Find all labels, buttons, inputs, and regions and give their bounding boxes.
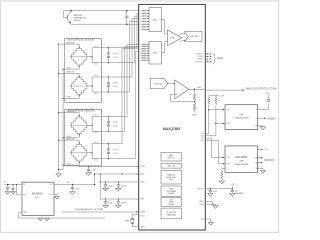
svg-text:0.1µF: 0.1µF bbox=[113, 122, 119, 124]
svg-text:MAXQ7665: MAXQ7665 bbox=[163, 127, 180, 131]
svg-text:LIN: LIN bbox=[240, 113, 244, 116]
svg-text:SC a: SC a bbox=[95, 46, 99, 48]
svg-text:MCU: MCU bbox=[169, 179, 174, 181]
svg-text:VBRIDGE: VBRIDGE bbox=[66, 42, 75, 44]
svg-text:TDO/DOUT: TDO/DOUT bbox=[195, 61, 204, 63]
svg-text:RESET: RESET bbox=[140, 212, 145, 214]
svg-text:+5V: +5V bbox=[220, 96, 224, 98]
svg-text:MUX: MUX bbox=[153, 20, 158, 22]
svg-text:LIN BUS: LIN BUS bbox=[267, 118, 276, 120]
svg-text:RX0: RX0 bbox=[201, 135, 204, 137]
svg-text:CAN BUS: CAN BUS bbox=[264, 159, 275, 162]
svg-text:FLASH: FLASH bbox=[168, 203, 175, 206]
svg-text:SENSOR: SENSOR bbox=[73, 20, 81, 22]
svg-text:FLASH: FLASH bbox=[168, 192, 175, 195]
svg-text:VDDIO: VDDIO bbox=[140, 166, 146, 168]
svg-text:0.01µF: 0.01µF bbox=[121, 203, 128, 205]
svg-text:(LIN 2.0): (LIN 2.0) bbox=[168, 158, 176, 160]
svg-text:TRANSCEIVER: TRANSCEIVER bbox=[234, 117, 249, 120]
svg-text:REGOUT: REGOUT bbox=[197, 188, 204, 190]
svg-text:OUT: OUT bbox=[49, 184, 52, 186]
svg-text:GND: GND bbox=[67, 163, 72, 165]
svg-text:0.1µF: 0.1µF bbox=[113, 57, 119, 59]
svg-text:SC b: SC b bbox=[95, 64, 99, 66]
svg-text:+5V: +5V bbox=[264, 149, 268, 151]
svg-text:12-BIT ADC: 12-BIT ADC bbox=[190, 35, 200, 38]
svg-text:TMS/CS: TMS/CS bbox=[197, 59, 204, 61]
svg-text:SC a: SC a bbox=[95, 75, 99, 77]
svg-text:GND: GND bbox=[67, 97, 72, 99]
svg-text:TCK/SCLK: TCK/SCLK bbox=[195, 54, 204, 56]
svg-text:SC a: SC a bbox=[95, 115, 99, 117]
svg-text:VBRIDGE: VBRIDGE bbox=[66, 111, 75, 113]
svg-text:8MHz: 8MHz bbox=[125, 221, 130, 223]
svg-text:ON: ON bbox=[23, 195, 25, 197]
svg-text:SC a: SC a bbox=[95, 142, 99, 144]
svg-text:0.1µF: 0.1µF bbox=[113, 82, 119, 84]
svg-text:0.1µF: 0.1µF bbox=[113, 53, 119, 55]
svg-text:+5V: +5V bbox=[230, 184, 234, 186]
svg-text:TRANSCEIVER: TRANSCEIVER bbox=[234, 163, 249, 166]
svg-text:+12V: +12V bbox=[3, 182, 6, 184]
svg-text:0.1µF: 0.1µF bbox=[113, 153, 119, 155]
svg-text:RX1: RX1 bbox=[201, 140, 204, 142]
svg-text:SC b: SC b bbox=[95, 132, 99, 134]
svg-text:0.01µF: 0.01µF bbox=[121, 186, 128, 188]
svg-text:CAN: CAN bbox=[239, 159, 244, 162]
svg-text:JTAG: JTAG bbox=[217, 56, 223, 60]
svg-text:0.1µF: 0.1µF bbox=[113, 86, 119, 88]
svg-text:12-BIT DAC: 12-BIT DAC bbox=[154, 82, 164, 85]
svg-text:0.1µF: 0.1µF bbox=[113, 125, 119, 127]
svg-text:IN: IN bbox=[23, 184, 25, 186]
svg-text:+12V: +12V bbox=[265, 93, 270, 95]
svg-text:VBRIDGE: VBRIDGE bbox=[66, 72, 75, 74]
svg-text:TDI/DIN: TDI/DIN bbox=[197, 56, 204, 58]
svg-text:0.1µF: 0.1µF bbox=[113, 149, 119, 151]
svg-text:SC b: SC b bbox=[95, 93, 99, 95]
svg-text:(CERAMIC): (CERAMIC) bbox=[235, 192, 244, 195]
svg-text:DATA RAM: DATA RAM bbox=[167, 213, 177, 216]
svg-text:EXTERNAL RESET IS OPTIONAL: EXTERNAL RESET IS OPTIONAL bbox=[75, 208, 104, 211]
svg-text:DUAL BRIDGE SENSOR: DUAL BRIDGE SENSOR bbox=[68, 39, 94, 42]
svg-text:CAN 2.0B: CAN 2.0B bbox=[167, 164, 176, 167]
svg-text:+5V: +5V bbox=[66, 182, 70, 184]
svg-text:SC b: SC b bbox=[95, 160, 99, 162]
svg-text:TX0: TX0 bbox=[201, 133, 204, 135]
svg-text:ANALOG OUTPUT (0 TO 5V): ANALOG OUTPUT (0 TO 5V) bbox=[246, 87, 277, 90]
svg-text:MUX: MUX bbox=[153, 53, 158, 55]
svg-text:TX1: TX1 bbox=[201, 138, 204, 140]
svg-text:VBRIDGE: VBRIDGE bbox=[66, 138, 75, 140]
svg-text:LDO: LDO bbox=[35, 197, 40, 199]
svg-text:MAX13050: MAX13050 bbox=[235, 156, 247, 159]
svg-text:MAX5024: MAX5024 bbox=[32, 193, 43, 196]
svg-text:GND: GND bbox=[67, 67, 72, 69]
